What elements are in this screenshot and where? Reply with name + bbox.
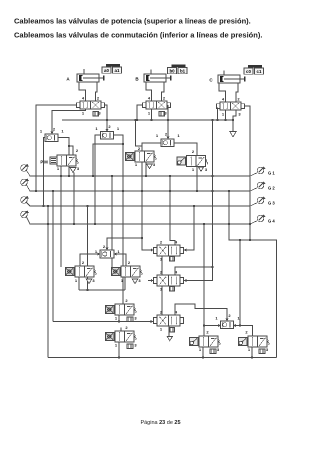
wire S2 left input to G4 rail — [95, 135, 101, 224]
wire VC right pilot down to G4 rail — [245, 106, 250, 224]
VM1 exhaust silencer — [127, 317, 133, 322]
wire S5 right input to VL2 output — [114, 254, 126, 266]
wire VA left pilot to G2 rail — [36, 105, 76, 191]
wire cylinder B rod port to VB port 2 — [162, 82, 165, 101]
svg-text:b1: b1 — [180, 69, 186, 74]
VB2 exhaust silencer — [259, 349, 265, 354]
G1 junctions — [60, 175, 62, 177]
wire LV0 port 1 to G1 rail — [145, 162, 147, 176]
wire G2 x53 to rail y321.5 left — [52, 191, 54, 322]
VL1 port 1 down to y290 rail — [78, 277, 80, 290]
branch y144 to G1 — [93, 144, 123, 176]
svg-text:A: A — [66, 77, 70, 82]
memory valve M2 4/2 — [153, 277, 157, 283]
rail G2 — [27, 185, 251, 191]
svg-text:2: 2 — [103, 244, 106, 249]
svg-text:1: 1 — [57, 166, 60, 171]
pressure source G2 right — [257, 182, 264, 189]
M3 exhaust silencer — [170, 328, 175, 333]
svg-text:1: 1 — [177, 133, 180, 138]
memory valve M3 4/2 — [153, 317, 157, 323]
wire S7 left input to VB1 port 2 — [204, 325, 221, 327]
svg-text:3: 3 — [153, 162, 156, 167]
svg-text:2: 2 — [228, 313, 231, 318]
wire M3 port 4 to S7 output — [175, 304, 227, 321]
LV1 exhaust port 3 — [198, 167, 203, 171]
wire cylinder C left port to VC port 4 — [219, 83, 226, 102]
pressure source G4 right — [257, 215, 264, 222]
valve VB2 3/2 — [248, 336, 258, 347]
wire S5 output up to junction y238 — [107, 238, 142, 250]
valve VM2 3/2 — [115, 331, 125, 342]
svg-text:2: 2 — [206, 330, 209, 335]
wire M2 port 1 to M3 port 2 — [161, 286, 163, 315]
svg-text:1: 1 — [148, 111, 151, 116]
svg-text:3: 3 — [238, 112, 241, 117]
shuttle valve S1 — [45, 134, 58, 142]
limit tags a0 a1 — [106, 64, 120, 67]
wire S1 left input to G3 rail — [44, 138, 46, 207]
svg-text:3: 3 — [205, 167, 208, 172]
svg-text:1: 1 — [121, 278, 124, 283]
svg-text:1: 1 — [160, 327, 163, 332]
svg-text:2: 2 — [160, 240, 163, 245]
wire S3 right input to LV1 output 2 — [174, 143, 197, 156]
wire VA port 1 to S1 output 2 — [52, 109, 86, 134]
shuttle valve S2 — [101, 132, 114, 140]
svg-text:2: 2 — [125, 325, 128, 330]
position tick b0 — [150, 70, 152, 75]
pressure source G3 right — [257, 197, 264, 204]
pressure source G1 right — [257, 167, 264, 174]
svg-text:P M: P M — [40, 160, 48, 165]
wire cylinder A rod port to VA port 2 — [96, 82, 98, 101]
svg-text:2: 2 — [82, 260, 85, 265]
VM2 output stub — [120, 328, 122, 332]
svg-text:2: 2 — [125, 298, 128, 303]
wire PM valve output 2 to S1 net — [69, 146, 73, 155]
rail G4 — [27, 217, 251, 224]
pressure source left 1 — [21, 165, 28, 172]
PM exhaust port 3 — [70, 168, 76, 173]
svg-text:3: 3 — [134, 316, 137, 321]
svg-text:1: 1 — [192, 167, 195, 172]
VC port 3 down to exhaust — [233, 110, 236, 132]
wire G3 x194 to M1 right pilot — [184, 206, 194, 250]
svg-text:1: 1 — [117, 126, 120, 131]
svg-text:3: 3 — [266, 347, 269, 352]
wire cylinder B left port to VB port 4 — [146, 82, 152, 101]
G4 junctions — [47, 223, 49, 225]
svg-text:1: 1 — [40, 129, 43, 134]
valve LV1 3/2 roller — [187, 156, 197, 167]
wire G1 x112 down to VL2 actuator — [111, 176, 113, 267]
M3 lower exhaust — [167, 337, 172, 341]
wire M2 port 4 up to x212 net — [175, 267, 213, 275]
wire S1 right input junction net — [58, 138, 69, 177]
svg-text:1: 1 — [115, 316, 118, 321]
wire cylinder C rod port to VC port 2 — [236, 83, 238, 102]
position tick a0 — [83, 69, 85, 74]
wire VC left pilot to rail y120 — [217, 108, 219, 121]
limit tags b0 b1 — [172, 65, 186, 68]
wire G3 x48 to bottom rail left — [47, 206, 49, 358]
LV0 exhaust — [147, 164, 153, 169]
svg-text:1: 1 — [160, 287, 163, 292]
wire G3 x87.5 down to y290 rail — [87, 206, 89, 290]
VL1 exhaust — [86, 279, 92, 284]
svg-text:G 4: G 4 — [268, 219, 275, 224]
svg-text:b0: b0 — [169, 69, 175, 74]
svg-text:1: 1 — [82, 111, 85, 116]
svg-text:2: 2 — [163, 96, 166, 101]
M1 exhaust silencer — [170, 257, 175, 262]
bottom rail y357.5 — [48, 357, 277, 359]
svg-text:1: 1 — [160, 257, 163, 262]
VB1 exhaust silencer — [210, 349, 216, 354]
svg-text:2: 2 — [108, 124, 111, 129]
rail G1 — [27, 171, 251, 177]
svg-text:Cableamos las válvulas de conm: Cableamos las válvulas de conmutación (i… — [14, 31, 262, 40]
wire G1 x170 down to M1 port 4 — [170, 176, 175, 245]
M2 left pilot stub — [148, 280, 153, 282]
svg-text:2: 2 — [138, 146, 141, 151]
valve VM1 3/2 — [115, 304, 125, 315]
rail y321.5 to M3 left pilot — [53, 321, 153, 323]
svg-text:1: 1 — [135, 162, 138, 167]
shuttle valve S5 — [100, 250, 114, 258]
wire rail y120 x212 down to M2 right pilot — [184, 120, 213, 281]
svg-text:B: B — [135, 77, 139, 82]
wire S3 left input down via x142 to M1 left pilot — [142, 143, 161, 250]
wire S5 left input to VL1 output — [80, 254, 100, 266]
svg-text:2: 2 — [53, 127, 56, 132]
svg-text:2: 2 — [160, 310, 163, 315]
wire VB port 1 to rail y120 — [151, 109, 153, 120]
wire G4 x204 down to VB1 port 2 — [203, 224, 205, 336]
wire cylinder A left port to VA port 4 — [79, 82, 86, 101]
pressure source left 4 — [21, 211, 28, 218]
wire M1 port 1 to M2 port 2 — [161, 256, 163, 275]
wire G4 end down to staircase — [249, 224, 251, 240]
svg-text:2: 2 — [165, 132, 168, 137]
svg-text:1: 1 — [248, 347, 251, 352]
svg-text:1: 1 — [222, 112, 225, 117]
svg-text:1: 1 — [115, 343, 118, 348]
M2 exhaust silencer — [170, 287, 175, 292]
svg-text:G 1: G 1 — [268, 171, 275, 176]
svg-text:1: 1 — [156, 133, 159, 138]
valve VB1 3/2 — [199, 336, 209, 347]
svg-text:1: 1 — [61, 129, 64, 134]
svg-text:G 2: G 2 — [268, 186, 275, 191]
shuttle valve S3 — [161, 139, 174, 147]
svg-text:c0: c0 — [246, 69, 251, 74]
G3 junctions — [42, 205, 44, 207]
junction S2 line with rail y120 — [106, 119, 108, 121]
VM1 port 1 to rail — [118, 315, 120, 322]
svg-text:C: C — [209, 78, 213, 83]
VB exhaust silencer port 3 — [159, 112, 165, 117]
rail G3 — [27, 203, 251, 207]
shuttle valve S7 — [221, 321, 234, 329]
wire VC port 1 to rail y120 — [225, 110, 227, 120]
svg-text:3: 3 — [138, 278, 141, 283]
PM port 1 to G1 rail — [60, 166, 62, 176]
VM2 port 1 to bottom rail — [118, 342, 120, 358]
VB1 port 1 to bottom rail — [202, 347, 204, 358]
svg-text:2: 2 — [237, 97, 240, 102]
svg-text:3: 3 — [92, 278, 95, 283]
svg-text:4: 4 — [148, 96, 151, 101]
svg-text:3: 3 — [134, 343, 137, 348]
valve VL1 3/2 — [75, 266, 85, 277]
limit tags c0 c1 — [248, 65, 262, 68]
valve VB 5/2 for cylinder B — [142, 103, 146, 108]
svg-text:1: 1 — [117, 249, 120, 254]
svg-text:3: 3 — [77, 166, 80, 171]
valve VC 5/2 for cylinder C — [216, 104, 220, 109]
svg-text:1: 1 — [75, 278, 78, 283]
VL2 port 1 down to y290 rail — [124, 277, 126, 290]
svg-text:3: 3 — [217, 347, 220, 352]
svg-text:2: 2 — [192, 149, 195, 154]
rail y120 stub down to LV0 — [136, 120, 143, 151]
wire S2 right input down via x123 — [114, 135, 124, 304]
PM exhaust line down to G4 — [73, 173, 75, 225]
svg-text:1: 1 — [215, 316, 218, 321]
svg-text:a1: a1 — [115, 68, 120, 73]
svg-text:2: 2 — [128, 260, 131, 265]
memory valve M1 4/2 — [153, 247, 157, 253]
svg-text:4: 4 — [222, 97, 225, 102]
svg-text:4: 4 — [82, 96, 85, 101]
signal rail y120 — [62, 119, 233, 121]
wire G1 x61 to VL1 actuator — [60, 176, 62, 267]
staircase wire G2 x229 down — [229, 191, 277, 358]
svg-text:2: 2 — [245, 330, 248, 335]
VL2 exhaust — [132, 279, 138, 284]
svg-text:1: 1 — [95, 249, 98, 254]
VA exhaust silencer port 3 — [93, 112, 99, 117]
valve PM 3/2 manual start — [57, 155, 67, 166]
svg-text:c1: c1 — [257, 69, 262, 74]
position tick c0 — [223, 71, 225, 76]
VM2 exhaust silencer — [127, 344, 133, 349]
wire staircase x240 down to S7 right net — [239, 240, 241, 326]
svg-text:1: 1 — [95, 126, 98, 131]
pressure source left 3 — [21, 197, 28, 204]
svg-text:G 3: G 3 — [268, 201, 275, 206]
pressure source left 2 — [21, 179, 28, 186]
wire LV1 port 1 down to G2 — [196, 166, 198, 192]
wire S3 output to VB right pilot — [167, 105, 169, 139]
wire VB left pilot to rail y120 — [137, 105, 142, 120]
VB2 port 1 to bottom rail — [251, 347, 253, 358]
wire S2 output to VA right pilot — [105, 105, 107, 132]
valve VA 5/2 for cylinder A — [76, 103, 80, 108]
valve VL2 3/2 — [121, 266, 131, 277]
wire S7 right input to VB2 port 2 — [234, 326, 253, 337]
rail y290 — [79, 289, 125, 291]
exhaust at end of rail y120 — [230, 132, 236, 137]
svg-text:Página 23 de 25: Página 23 de 25 — [140, 420, 180, 426]
svg-text:2: 2 — [97, 96, 100, 101]
svg-text:Cableamos las válvulas de pote: Cableamos las válvulas de potencia (supe… — [14, 17, 251, 26]
M3 port stub down to exhaust — [168, 326, 170, 337]
svg-text:2: 2 — [76, 148, 79, 153]
valve LV0 3/2 roller — [135, 151, 145, 162]
svg-text:1: 1 — [199, 347, 202, 352]
svg-text:a0: a0 — [104, 68, 109, 73]
svg-text:2: 2 — [160, 270, 163, 275]
G2 junctions — [35, 190, 37, 192]
